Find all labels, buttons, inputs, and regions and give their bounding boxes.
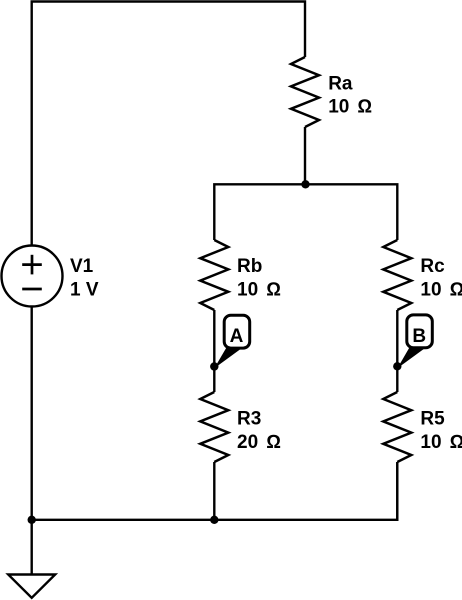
resistor Rc <box>383 240 462 310</box>
wire top horizontal <box>32 2 305 246</box>
svg-text:10 Ω: 10 Ω <box>237 280 281 301</box>
wire R5 to bottom <box>396 462 398 520</box>
wire bottom horizontal <box>32 462 398 520</box>
svg-text:10 Ω: 10 Ω <box>420 432 462 453</box>
svg-text:R3: R3 <box>237 408 261 429</box>
resistor Rb <box>200 240 281 310</box>
resistor R3 <box>200 392 281 462</box>
svg-text:R5: R5 <box>420 408 445 429</box>
svg-text:Ra: Ra <box>328 73 353 94</box>
svg-text:V1: V1 <box>70 256 94 277</box>
node junction dot bottom R3 <box>210 516 218 524</box>
wire left rail bottom <box>31 307 33 520</box>
svg-text:10 Ω: 10 Ω <box>328 97 372 118</box>
svg-text:20 Ω: 20 Ω <box>237 432 281 453</box>
node A label tag <box>214 315 249 368</box>
resistor Ra <box>291 57 372 127</box>
wire middle horizontal <box>214 184 397 240</box>
svg-text:10 Ω: 10 Ω <box>420 280 462 301</box>
svg-text:Rb: Rb <box>237 256 262 277</box>
ground <box>8 520 55 598</box>
wire R3 to bottom <box>213 462 215 520</box>
wire Rb to node A <box>213 310 215 392</box>
node junction dot middle <box>301 180 309 188</box>
node B label tag <box>397 315 432 368</box>
node B junction dot <box>393 362 401 370</box>
node A junction dot <box>210 362 218 370</box>
resistor R5 <box>383 392 462 462</box>
svg-text:B: B <box>412 326 426 347</box>
wire Ra to middle node <box>304 127 306 184</box>
svg-text:1 V: 1 V <box>70 280 99 301</box>
wire Rc to node B <box>396 310 398 392</box>
node junction dot bottom left rail <box>28 516 36 524</box>
svg-text:A: A <box>230 326 244 347</box>
svg-text:Rc: Rc <box>420 256 445 277</box>
voltage source V1 <box>2 246 99 307</box>
